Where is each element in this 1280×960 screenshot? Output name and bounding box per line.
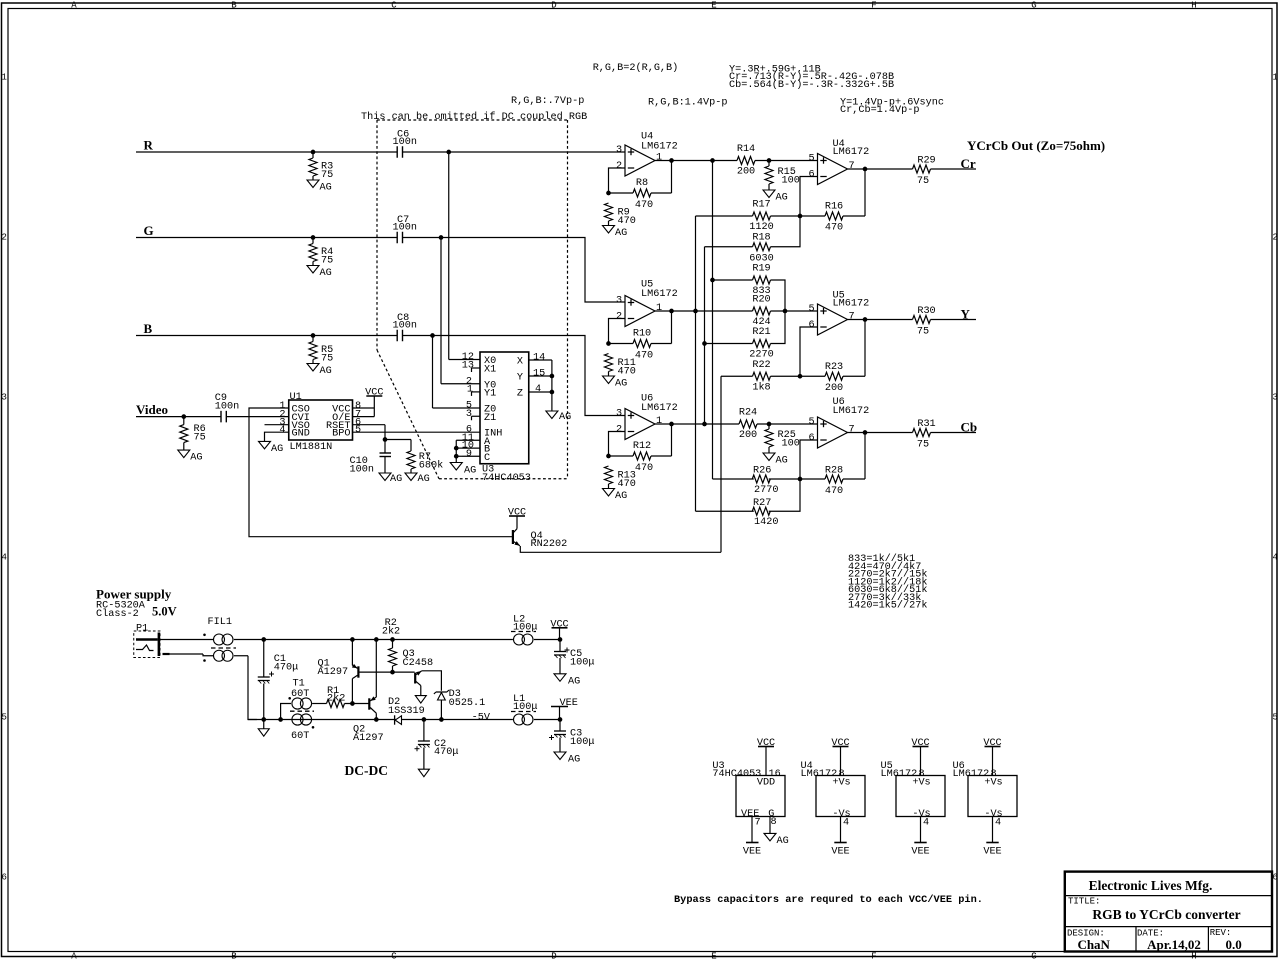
svg-text:AG: AG bbox=[559, 412, 571, 423]
svg-text:4: 4 bbox=[843, 818, 849, 829]
svg-text:1420=1k5//27k: 1420=1k5//27k bbox=[848, 600, 927, 612]
svg-text:R18: R18 bbox=[752, 232, 770, 243]
svg-text:7: 7 bbox=[848, 312, 854, 323]
svg-text:X: X bbox=[517, 357, 523, 368]
svg-text:G: G bbox=[1031, 1, 1036, 11]
svg-text:TITLE:: TITLE: bbox=[1068, 897, 1100, 907]
svg-text:5: 5 bbox=[808, 154, 814, 165]
svg-text:R8: R8 bbox=[636, 178, 648, 189]
svg-text:74HC4053: 74HC4053 bbox=[712, 769, 761, 780]
svg-text:470: 470 bbox=[825, 486, 843, 497]
svg-text:C: C bbox=[391, 1, 397, 11]
svg-text:4: 4 bbox=[995, 818, 1001, 829]
svg-text:C: C bbox=[391, 951, 397, 960]
svg-text:VEE: VEE bbox=[831, 847, 849, 858]
svg-text:100: 100 bbox=[782, 176, 800, 187]
svg-text:LM1881N: LM1881N bbox=[290, 442, 333, 453]
svg-text:B: B bbox=[144, 321, 153, 336]
svg-text:6: 6 bbox=[1272, 873, 1277, 883]
svg-text:GND: GND bbox=[292, 429, 310, 440]
svg-text:13: 13 bbox=[462, 361, 474, 372]
svg-text:5: 5 bbox=[1272, 713, 1277, 723]
svg-text:1SS319: 1SS319 bbox=[388, 706, 425, 717]
svg-text:AG: AG bbox=[777, 836, 789, 847]
svg-text:Video: Video bbox=[136, 402, 168, 417]
svg-text:Cb=.564(B-Y)=-.3R-.332G+.5B: Cb=.564(B-Y)=-.3R-.332G+.5B bbox=[729, 79, 894, 91]
svg-text:2: 2 bbox=[1, 233, 6, 243]
svg-text:200: 200 bbox=[737, 167, 755, 178]
svg-text:9: 9 bbox=[466, 449, 472, 460]
svg-text:3: 3 bbox=[616, 296, 622, 307]
svg-text:Apr.14,02: Apr.14,02 bbox=[1147, 937, 1201, 952]
svg-text:+Vs: +Vs bbox=[984, 778, 1002, 789]
svg-text:VEE: VEE bbox=[560, 698, 578, 709]
svg-text:470μ: 470μ bbox=[434, 747, 458, 758]
svg-text:U1: U1 bbox=[290, 392, 302, 403]
svg-text:470: 470 bbox=[618, 479, 636, 490]
svg-text:AG: AG bbox=[776, 193, 788, 204]
svg-text:E: E bbox=[711, 951, 716, 960]
svg-text:R,G,B:1.4Vp-p: R,G,B:1.4Vp-p bbox=[648, 98, 727, 109]
svg-text:R23: R23 bbox=[825, 362, 843, 373]
svg-text:G: G bbox=[1031, 951, 1036, 960]
svg-text:AG: AG bbox=[615, 491, 627, 502]
svg-text:60T: 60T bbox=[291, 731, 309, 742]
svg-text:5: 5 bbox=[808, 417, 814, 428]
svg-text:AG: AG bbox=[615, 228, 627, 239]
svg-text:4: 4 bbox=[1272, 553, 1277, 563]
svg-text:D: D bbox=[551, 951, 556, 960]
svg-text:VEE: VEE bbox=[911, 847, 929, 858]
svg-text:R: R bbox=[144, 138, 154, 153]
svg-text:14: 14 bbox=[533, 353, 545, 364]
svg-text:A1297: A1297 bbox=[353, 733, 384, 744]
svg-text:A: A bbox=[71, 951, 77, 960]
svg-text:470: 470 bbox=[825, 223, 843, 234]
svg-text:6030: 6030 bbox=[749, 253, 773, 264]
svg-text:15: 15 bbox=[533, 369, 545, 380]
svg-text:AG: AG bbox=[190, 453, 202, 464]
svg-text:F: F bbox=[871, 951, 876, 960]
svg-text:R10: R10 bbox=[633, 329, 651, 340]
svg-text:+Vs: +Vs bbox=[912, 778, 930, 789]
svg-text:75: 75 bbox=[194, 433, 206, 444]
svg-text:FIL1: FIL1 bbox=[208, 617, 232, 628]
svg-text:LM6172: LM6172 bbox=[641, 403, 678, 414]
svg-text:2: 2 bbox=[616, 425, 622, 436]
svg-text:R22: R22 bbox=[752, 360, 770, 371]
svg-text:Y1: Y1 bbox=[484, 388, 496, 399]
svg-text:AG: AG bbox=[568, 755, 580, 766]
svg-text:AG: AG bbox=[568, 677, 580, 688]
svg-text:470: 470 bbox=[635, 200, 653, 211]
svg-text:AG: AG bbox=[776, 456, 788, 467]
svg-text:100n: 100n bbox=[215, 402, 239, 413]
svg-text:R24: R24 bbox=[739, 408, 757, 419]
svg-text:4: 4 bbox=[1, 553, 6, 563]
svg-text:R,G,B:.7Vp-p: R,G,B:.7Vp-p bbox=[511, 96, 584, 107]
svg-text:200: 200 bbox=[825, 383, 843, 394]
svg-text:5: 5 bbox=[808, 304, 814, 315]
svg-text:100n: 100n bbox=[393, 137, 417, 148]
svg-text:R29: R29 bbox=[917, 156, 935, 167]
svg-text:1: 1 bbox=[656, 303, 662, 314]
svg-text:C: C bbox=[484, 453, 490, 464]
svg-text:AG: AG bbox=[320, 183, 332, 194]
svg-text:LM6172: LM6172 bbox=[641, 142, 678, 153]
svg-text:R31: R31 bbox=[917, 419, 935, 430]
svg-text:470μ: 470μ bbox=[274, 662, 298, 673]
svg-text:A1297: A1297 bbox=[318, 667, 349, 678]
svg-text:LM6172: LM6172 bbox=[833, 147, 870, 158]
svg-text:A: A bbox=[71, 1, 77, 11]
svg-text:ChaN: ChaN bbox=[1077, 937, 1110, 952]
svg-text:75: 75 bbox=[917, 176, 929, 187]
svg-text:7: 7 bbox=[755, 818, 761, 829]
svg-text:1: 1 bbox=[656, 416, 662, 427]
svg-text:470: 470 bbox=[635, 351, 653, 362]
svg-text:R21: R21 bbox=[752, 327, 770, 338]
svg-text:VEE: VEE bbox=[983, 847, 1001, 858]
svg-text:This can be omitted if DC coup: This can be omitted if DC coupled RGB bbox=[361, 111, 587, 123]
svg-text:470: 470 bbox=[618, 216, 636, 227]
svg-text:2: 2 bbox=[616, 312, 622, 323]
svg-text:74HC4053: 74HC4053 bbox=[482, 473, 531, 484]
svg-text:E: E bbox=[711, 1, 716, 11]
svg-text:75: 75 bbox=[321, 256, 333, 267]
svg-text:6: 6 bbox=[1, 873, 6, 883]
svg-text:R,G,B=2(R,G,B): R,G,B=2(R,G,B) bbox=[593, 62, 679, 74]
svg-text:R12: R12 bbox=[633, 441, 651, 452]
svg-text:0.0: 0.0 bbox=[1225, 937, 1241, 952]
svg-text:7: 7 bbox=[848, 161, 854, 172]
svg-text:LM6172: LM6172 bbox=[833, 406, 870, 417]
svg-text:470: 470 bbox=[635, 463, 653, 474]
svg-text:Class-2: Class-2 bbox=[96, 608, 139, 620]
svg-text:100n: 100n bbox=[393, 321, 417, 332]
svg-text:5: 5 bbox=[355, 425, 361, 436]
svg-text:Y: Y bbox=[517, 373, 523, 384]
svg-text:3: 3 bbox=[616, 409, 622, 420]
svg-text:0525.1: 0525.1 bbox=[449, 698, 486, 709]
svg-text:AG: AG bbox=[390, 474, 402, 485]
svg-text:C2458: C2458 bbox=[403, 658, 434, 669]
svg-text:1420: 1420 bbox=[754, 517, 778, 528]
svg-text:100n: 100n bbox=[350, 465, 374, 476]
svg-text:833: 833 bbox=[752, 286, 770, 297]
svg-text:R19: R19 bbox=[752, 264, 770, 275]
svg-text:G: G bbox=[144, 223, 154, 238]
svg-text:4: 4 bbox=[923, 818, 929, 829]
svg-text:AG: AG bbox=[320, 366, 332, 377]
svg-text:Z1: Z1 bbox=[484, 413, 496, 424]
svg-text:AG: AG bbox=[464, 466, 476, 477]
svg-text:Electronic Lives Mfg.: Electronic Lives Mfg. bbox=[1089, 878, 1213, 893]
svg-text:680k: 680k bbox=[419, 460, 443, 472]
svg-text:1: 1 bbox=[1272, 73, 1277, 83]
svg-text:R28: R28 bbox=[825, 466, 843, 477]
svg-text:B: B bbox=[231, 1, 237, 11]
svg-text:LM6172: LM6172 bbox=[641, 289, 678, 300]
svg-text:B: B bbox=[231, 951, 237, 960]
svg-text:R16: R16 bbox=[825, 202, 843, 213]
svg-text:R14: R14 bbox=[737, 144, 755, 155]
svg-text:X1: X1 bbox=[484, 365, 496, 376]
svg-text:7: 7 bbox=[848, 425, 854, 436]
svg-text:3: 3 bbox=[1272, 393, 1277, 403]
svg-text:BPO: BPO bbox=[332, 429, 350, 440]
svg-text:100n: 100n bbox=[393, 223, 417, 234]
svg-text:3: 3 bbox=[1, 393, 6, 403]
svg-text:LM6172: LM6172 bbox=[833, 299, 870, 310]
svg-text:AG: AG bbox=[320, 268, 332, 279]
svg-text:1k8: 1k8 bbox=[752, 381, 770, 393]
svg-text:6: 6 bbox=[808, 170, 814, 181]
svg-text:R27: R27 bbox=[753, 498, 771, 509]
svg-text:RGB to YCrCb converter: RGB to YCrCb converter bbox=[1092, 907, 1240, 922]
svg-text:R26: R26 bbox=[753, 466, 771, 477]
svg-text:2k2: 2k2 bbox=[382, 625, 400, 637]
svg-text:1: 1 bbox=[1, 73, 6, 83]
svg-text:Z: Z bbox=[517, 389, 523, 400]
svg-text:200: 200 bbox=[739, 430, 757, 441]
svg-text:6: 6 bbox=[808, 320, 814, 331]
svg-text:AG: AG bbox=[615, 379, 627, 390]
svg-text:470: 470 bbox=[618, 367, 636, 378]
svg-text:Bypass capacitors are requred: Bypass capacitors are requred to each VC… bbox=[674, 894, 983, 906]
svg-text:YCrCb Out (Zo=75ohm): YCrCb Out (Zo=75ohm) bbox=[967, 138, 1105, 153]
svg-text:4: 4 bbox=[279, 425, 285, 436]
svg-text:VDD: VDD bbox=[757, 778, 775, 789]
svg-text:-5V: -5V bbox=[472, 713, 491, 724]
svg-text:6: 6 bbox=[808, 433, 814, 444]
svg-text:75: 75 bbox=[321, 354, 333, 365]
svg-text:+Vs: +Vs bbox=[832, 778, 850, 789]
svg-text:DC-DC: DC-DC bbox=[345, 763, 389, 778]
svg-text:75: 75 bbox=[321, 170, 333, 181]
svg-text:RN2202: RN2202 bbox=[531, 539, 568, 550]
svg-text:Y: Y bbox=[961, 307, 971, 322]
svg-text:Cr,Cb=1.4Vp-p: Cr,Cb=1.4Vp-p bbox=[840, 104, 919, 116]
svg-text:100: 100 bbox=[782, 439, 800, 450]
svg-text:Cr: Cr bbox=[961, 156, 976, 171]
svg-text:D: D bbox=[551, 1, 556, 11]
svg-text:4: 4 bbox=[535, 384, 541, 395]
svg-text:H: H bbox=[1191, 1, 1196, 11]
svg-text:2: 2 bbox=[1272, 233, 1277, 243]
svg-text:R17: R17 bbox=[752, 200, 770, 211]
svg-text:75: 75 bbox=[917, 440, 929, 451]
svg-text:F: F bbox=[871, 1, 876, 11]
svg-text:2: 2 bbox=[616, 161, 622, 172]
svg-text:2770: 2770 bbox=[754, 485, 778, 496]
svg-text:3: 3 bbox=[616, 145, 622, 156]
svg-text:VEE: VEE bbox=[743, 847, 761, 858]
svg-text:5: 5 bbox=[1, 713, 6, 723]
svg-text:2k2: 2k2 bbox=[327, 693, 345, 705]
svg-text:75: 75 bbox=[917, 327, 929, 338]
svg-text:100μ: 100μ bbox=[570, 657, 594, 668]
svg-text:AG: AG bbox=[418, 474, 430, 485]
svg-text:P1: P1 bbox=[136, 624, 148, 635]
svg-text:100μ: 100μ bbox=[570, 737, 594, 748]
svg-text:1: 1 bbox=[656, 153, 662, 164]
svg-text:8: 8 bbox=[771, 817, 777, 828]
svg-text:AG: AG bbox=[271, 444, 283, 455]
svg-text:Cb: Cb bbox=[961, 420, 978, 435]
svg-text:5.0V: 5.0V bbox=[152, 605, 177, 619]
svg-text:Power supply: Power supply bbox=[96, 587, 172, 602]
svg-text:R30: R30 bbox=[917, 306, 935, 317]
